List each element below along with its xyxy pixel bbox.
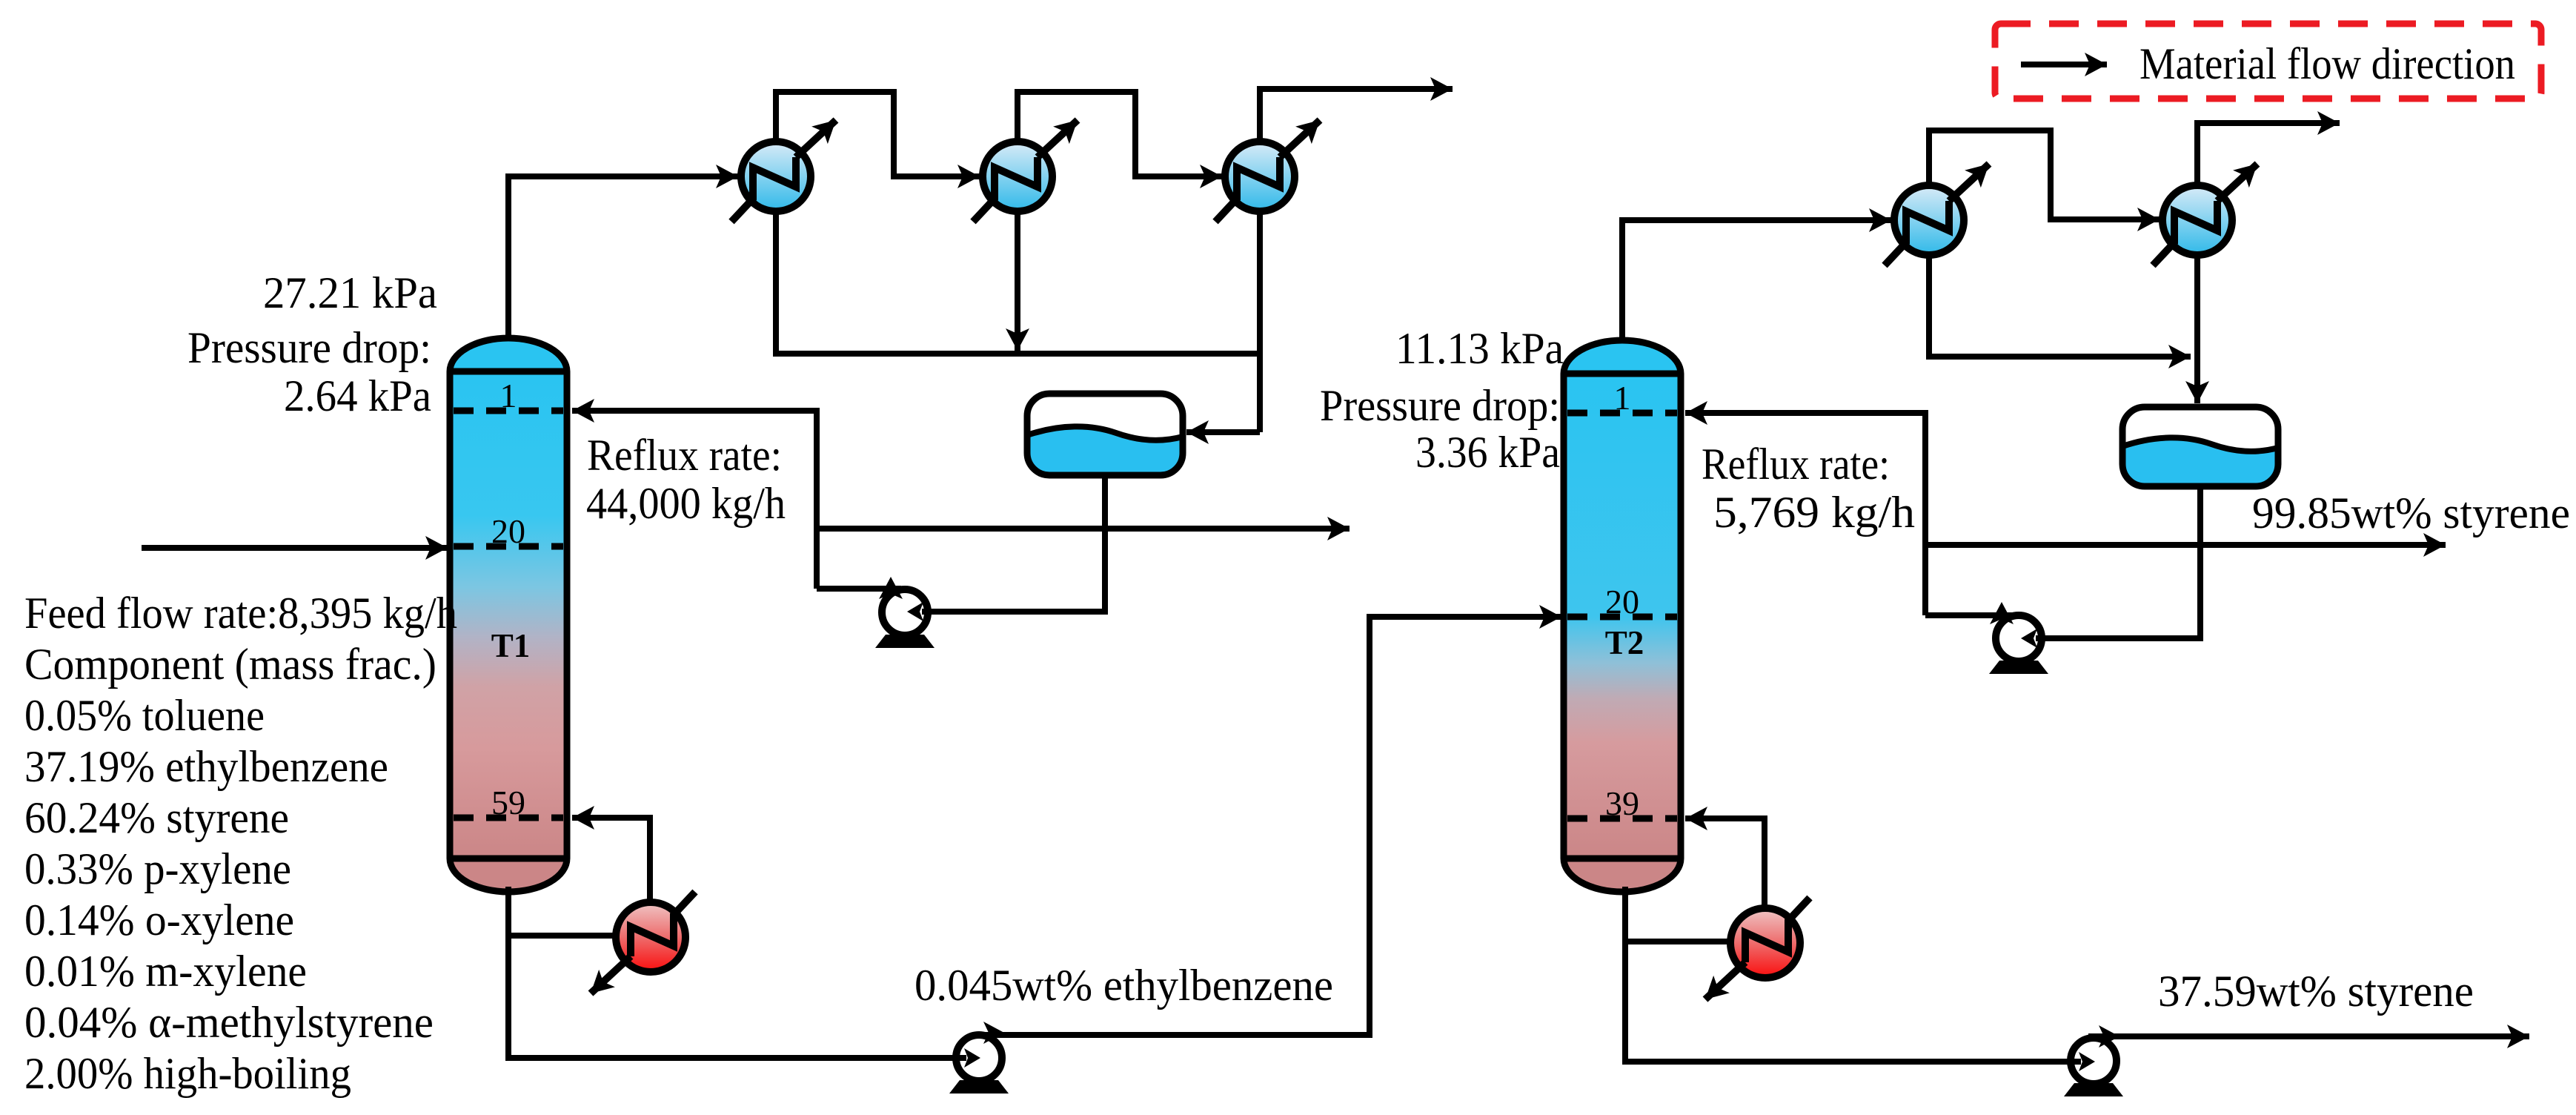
wire E2 top outlet to E3 bbox=[1018, 92, 1222, 176]
wire E1 bottom drain bbox=[773, 211, 779, 354]
wire T2 distillate product bbox=[1925, 542, 2446, 548]
svg-text:99.85wt% styrene: 99.85wt% styrene bbox=[2252, 489, 2570, 537]
svg-text:11.13 kPa: 11.13 kPa bbox=[1395, 324, 1564, 373]
wire T2 bottoms tee to reboiler E7 bbox=[1622, 939, 1731, 944]
pump P1 reflux bbox=[875, 589, 935, 648]
wire T1 overhead vapor to condenser E1 bbox=[508, 176, 738, 341]
wire T2 overhead vapor to condenser E5 bbox=[1622, 220, 1891, 343]
svg-text:1: 1 bbox=[1614, 379, 1631, 417]
svg-text:59: 59 bbox=[491, 784, 525, 821]
condenser E3 bbox=[1215, 120, 1320, 222]
wire T1 reflux riser and return to tray 1 bbox=[572, 411, 817, 589]
pump P4 bottoms bbox=[2064, 1038, 2123, 1096]
wire E3 bottom drain to drum V1 bbox=[1257, 211, 1263, 432]
wire T2 reflux riser and return to tray 1 bbox=[1685, 413, 1925, 615]
wire drum V1 inlet bbox=[1186, 429, 1260, 435]
wire E1 top outlet to E2 bbox=[776, 92, 980, 176]
wire E2 bottom drain with arrow bbox=[1015, 211, 1020, 351]
arrow into P2 bbox=[2021, 629, 2037, 648]
svg-text:Pressure drop:: Pressure drop: bbox=[1320, 381, 1560, 430]
svg-text:2.00% high-boiling: 2.00% high-boiling bbox=[24, 1049, 351, 1098]
svg-text:27.21 kPa: 27.21 kPa bbox=[263, 268, 437, 317]
svg-text:0.01% m-xylene: 0.01% m-xylene bbox=[24, 947, 307, 996]
wire reboiler E4 return to tray 59 bbox=[572, 818, 650, 903]
wire condensate header bbox=[773, 351, 1260, 357]
svg-text:60.24% styrene: 60.24% styrene bbox=[24, 793, 289, 842]
reboiler E4 bbox=[591, 892, 695, 993]
wire E3 top outlet (vent) bbox=[1260, 89, 1453, 142]
svg-text:39: 39 bbox=[1605, 784, 1639, 822]
arrow into P3 bbox=[964, 1048, 980, 1068]
wire E6 bottom drain to drum V2 bbox=[2194, 255, 2200, 403]
svg-text:T1: T1 bbox=[491, 627, 531, 664]
arrow P2 discharge up bbox=[1990, 602, 2014, 624]
column T1 bbox=[450, 338, 567, 892]
wire E5 top outlet to E6 bbox=[1929, 130, 2160, 219]
svg-text:37.59wt% styrene: 37.59wt% styrene bbox=[2158, 967, 2474, 1016]
wire P2 discharge bbox=[1925, 612, 2015, 618]
svg-text:Feed flow rate:8,395 kg/h: Feed flow rate:8,395 kg/h bbox=[24, 589, 457, 638]
T2 tray 20 bbox=[1567, 614, 1677, 621]
wire T1 bottoms tee to reboiler E4 bbox=[505, 933, 617, 939]
T2 tray 39 bbox=[1567, 815, 1677, 822]
column T2 bbox=[1564, 340, 1681, 892]
svg-text:5,769 kg/h: 5,769 kg/h bbox=[1713, 488, 1915, 537]
svg-text:0.05% toluene: 0.05% toluene bbox=[24, 691, 265, 740]
arrow P3 discharge right bbox=[983, 1022, 1004, 1044]
T2 tray 1 bbox=[1567, 410, 1677, 417]
T1 tray 20 bbox=[454, 543, 563, 550]
legend arrow bbox=[2021, 62, 2107, 67]
svg-text:0.045wt% ethylbenzene: 0.045wt% ethylbenzene bbox=[914, 961, 1333, 1010]
svg-text:Reflux rate:: Reflux rate: bbox=[587, 431, 782, 480]
wire V1 bottom outlet to pump P1 bbox=[922, 475, 1105, 612]
wire T1 feed line bbox=[142, 545, 448, 551]
arrow into P4 bbox=[2079, 1052, 2095, 1071]
reboiler E7 bbox=[1705, 898, 1810, 999]
svg-text:Reflux rate:: Reflux rate: bbox=[1702, 440, 1890, 489]
svg-text:0.33% p-xylene: 0.33% p-xylene bbox=[24, 844, 291, 893]
arrow P4 discharge right bbox=[2099, 1025, 2119, 1048]
drum V1 bbox=[1027, 394, 1183, 475]
wire T1 distillate product bbox=[817, 526, 1350, 532]
arrow P1 discharge up bbox=[879, 577, 903, 599]
svg-text:3.36 kPa: 3.36 kPa bbox=[1415, 428, 1560, 477]
condenser E5 bbox=[1885, 164, 1989, 265]
condenser E2 bbox=[973, 120, 1078, 222]
svg-text:T2: T2 bbox=[1605, 624, 1644, 661]
wire T2 bottoms to pump P4 bbox=[1625, 887, 2081, 1062]
svg-text:20: 20 bbox=[491, 512, 525, 550]
wire P4 discharge product bbox=[2088, 1033, 2529, 1039]
svg-text:1: 1 bbox=[500, 377, 517, 414]
T1 tray 1 bbox=[454, 408, 563, 414]
svg-text:Pressure drop:: Pressure drop: bbox=[187, 323, 431, 372]
wire V2 bottom outlet to pump P2 bbox=[2036, 486, 2200, 638]
svg-text:2.64 kPa: 2.64 kPa bbox=[284, 371, 431, 420]
wire E6 top outlet (vent) bbox=[2197, 123, 2340, 185]
condenser E6 bbox=[2153, 164, 2257, 265]
wire P1 discharge bbox=[817, 586, 901, 592]
svg-text:Material flow direction: Material flow direction bbox=[2140, 39, 2515, 88]
svg-text:0.14% o-xylene: 0.14% o-xylene bbox=[24, 896, 294, 944]
drum V2 bbox=[2122, 407, 2278, 486]
svg-text:37.19% ethylbenzene: 37.19% ethylbenzene bbox=[24, 742, 388, 791]
wire reboiler E7 return to tray 39 bbox=[1685, 818, 1765, 909]
wire E5 bottom drain with arrow bbox=[1929, 255, 2191, 357]
legend box bbox=[1995, 24, 2541, 99]
svg-text:Component (mass frac.): Component (mass frac.) bbox=[24, 640, 436, 689]
pump P2 reflux bbox=[1989, 615, 2048, 674]
svg-text:20: 20 bbox=[1605, 583, 1639, 621]
svg-text:0.04% α-methylstyrene: 0.04% α-methylstyrene bbox=[24, 998, 434, 1047]
T1 tray 59 bbox=[454, 815, 563, 821]
wire P3 discharge to T2 feed tray 20 bbox=[974, 617, 1561, 1035]
pump P3 bottoms bbox=[949, 1035, 1009, 1094]
arrow into P1 bbox=[907, 602, 923, 621]
wire T1 bottoms to pump P3 bbox=[508, 887, 966, 1058]
svg-text:44,000 kg/h: 44,000 kg/h bbox=[586, 479, 786, 528]
condenser E1 bbox=[731, 120, 836, 222]
